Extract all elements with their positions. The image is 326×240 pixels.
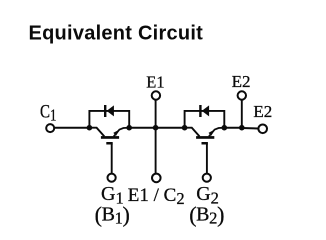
Q2 base/body bar [196, 136, 214, 139]
Q2 emitter lead with arrow [209, 128, 224, 137]
node: Q2 emitter junction [222, 125, 228, 131]
svg-text:C1: C1 [40, 101, 57, 124]
Q2 gate bar [202, 142, 208, 145]
wire: Q1 emitter node to E1 node [129, 127, 155, 129]
wire: diode D2 anti-parallel loop [185, 111, 225, 128]
diode D1 [104, 105, 114, 117]
Q1 collector lead [89, 128, 104, 137]
svg-text:E2: E2 [253, 102, 272, 121]
wire: E1 node down to terminal E1/C2 [155, 128, 157, 174]
svg-text:E1 / C2: E1 / C2 [128, 185, 185, 208]
Q1 base/body bar [101, 136, 119, 139]
svg-text:(B2): (B2) [189, 202, 224, 228]
wire: Q1 gate to terminal G1 [111, 144, 113, 174]
terminal E1 [152, 91, 160, 99]
svg-text:(B1): (B1) [95, 202, 130, 228]
transistor Q1 [89, 128, 129, 145]
wire: E2 node to terminal E2 (right) [242, 127, 258, 130]
terminal E2 (top) [238, 91, 246, 99]
terminal G2 [203, 174, 211, 182]
terminal C1 [46, 124, 54, 132]
node E1 junction [153, 125, 159, 131]
svg-text:E1: E1 [146, 73, 164, 92]
Q2 collector lead [185, 128, 200, 137]
wire: E1 node up to terminal E1 [155, 100, 157, 128]
wire: Q2 emitter node to E2 node [224, 127, 242, 129]
node: Q1 collector junction [87, 125, 93, 131]
node: Q1 emitter junction [126, 125, 132, 131]
wire: C1 to Q1 collector node [55, 127, 90, 129]
wire: Q2 gate to terminal G2 [206, 144, 208, 174]
svg-text:Equivalent Circuit: Equivalent Circuit [29, 23, 204, 45]
wire: diode D1 anti-parallel loop [89, 111, 129, 128]
transistor Q2 [185, 128, 225, 145]
terminal G1 [108, 174, 116, 182]
Q1 emitter lead with arrow [114, 128, 130, 137]
wire: E2 node up to terminal E2 (top) [241, 100, 243, 128]
Q1 gate bar [106, 142, 112, 145]
terminal E2 (right) [258, 125, 267, 134]
node: Q2 collector junction [182, 125, 188, 131]
wire: E1 node to Q2 collector node [156, 127, 185, 129]
svg-text:E2: E2 [232, 72, 251, 91]
terminal E1/C2 [152, 174, 161, 183]
diode D2 [199, 105, 209, 117]
node E2 junction [239, 125, 245, 131]
